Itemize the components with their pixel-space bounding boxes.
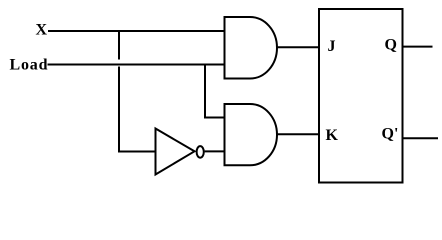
- svg-text:Q: Q: [385, 37, 397, 54]
- wire Load branch to and-gate U2: [204, 117, 225, 119]
- svg-text:K: K: [326, 127, 339, 144]
- wire Load branch vertical: [204, 65, 206, 119]
- svg-text:Load: Load: [10, 56, 49, 73]
- wire U3 output to and-gate U2: [205, 150, 225, 152]
- wire X branch to inverter: [118, 151, 156, 153]
- wire U2 output to K: [276, 133, 319, 135]
- and-gate U1: [225, 17, 278, 79]
- wire X branch vertical upper segment: [118, 30, 120, 60]
- wire U1 output to J: [276, 46, 319, 48]
- inverter U3 bubble: [197, 146, 204, 158]
- svg-text:Q': Q': [382, 126, 399, 143]
- flip-flop U4 JK box: [319, 9, 403, 183]
- svg-text:J: J: [328, 38, 336, 55]
- svg-text:X: X: [36, 22, 48, 39]
- and-gate U2: [225, 104, 278, 165]
- wire Load input: [48, 64, 225, 66]
- inverter U3 triangle: [156, 129, 195, 175]
- wire X input: [48, 30, 225, 32]
- wire Q' output: [403, 137, 439, 139]
- wire X branch vertical lower segment: [118, 67, 120, 153]
- wire Q output: [403, 46, 433, 48]
